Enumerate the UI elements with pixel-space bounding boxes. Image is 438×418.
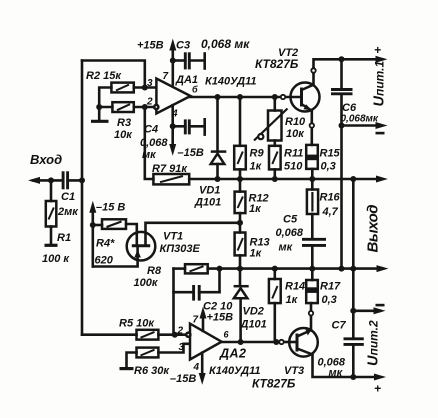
svg-text:–15 В: –15 В bbox=[96, 202, 125, 214]
svg-text:R4*: R4* bbox=[96, 238, 115, 250]
svg-text:4: 4 bbox=[171, 109, 178, 120]
svg-text:С6: С6 bbox=[342, 102, 357, 114]
svg-text:R15: R15 bbox=[320, 148, 341, 160]
svg-text:1к: 1к bbox=[249, 203, 262, 215]
svg-text:0,068: 0,068 bbox=[276, 227, 304, 239]
svg-text:R11: R11 bbox=[284, 148, 303, 160]
svg-text:+: + bbox=[374, 43, 381, 57]
svg-text:КТ827Б: КТ827Б bbox=[255, 57, 299, 71]
svg-text:R7 91к: R7 91к bbox=[152, 163, 188, 175]
svg-text:1к: 1к bbox=[250, 161, 263, 173]
svg-text:+15В: +15В bbox=[207, 312, 234, 324]
svg-text:VT1: VT1 bbox=[163, 231, 183, 243]
svg-text:Д101: Д101 bbox=[240, 319, 267, 331]
svg-text:К140УД11: К140УД11 bbox=[209, 365, 261, 377]
svg-text:0,068 мк: 0,068 мк bbox=[201, 37, 250, 51]
svg-text:0,068мк: 0,068мк bbox=[341, 114, 379, 125]
svg-text:+: + bbox=[374, 382, 381, 396]
svg-text:1к: 1к bbox=[286, 294, 299, 306]
svg-text:К140УД11: К140УД11 bbox=[205, 76, 257, 88]
svg-text:мк: мк bbox=[329, 367, 344, 379]
svg-text:R16: R16 bbox=[320, 192, 341, 204]
svg-text:620: 620 bbox=[95, 255, 114, 267]
svg-text:мк: мк bbox=[279, 242, 294, 254]
svg-text:КТ827Б: КТ827Б bbox=[252, 377, 296, 391]
svg-text:3: 3 bbox=[147, 78, 153, 89]
svg-text:R8: R8 bbox=[147, 265, 162, 277]
svg-text:1к: 1к bbox=[250, 248, 263, 260]
svg-text:R17: R17 bbox=[320, 281, 341, 293]
svg-text:–15В: –15В bbox=[178, 147, 204, 159]
svg-text:мк: мк bbox=[142, 149, 157, 161]
svg-text:б: б bbox=[192, 85, 198, 95]
svg-text:VD2: VD2 bbox=[243, 306, 264, 318]
svg-text:2мк: 2мк bbox=[57, 206, 79, 218]
svg-text:R1: R1 bbox=[57, 232, 71, 244]
svg-text:2: 2 bbox=[146, 97, 153, 108]
svg-text:0,3: 0,3 bbox=[321, 161, 336, 173]
svg-text:3: 3 bbox=[179, 342, 185, 353]
svg-text:2: 2 bbox=[177, 326, 184, 337]
svg-text:510: 510 bbox=[284, 161, 303, 173]
svg-text:Д101: Д101 bbox=[194, 197, 221, 209]
svg-text:–15В: –15В bbox=[170, 373, 196, 385]
svg-text:100к: 100к bbox=[134, 277, 159, 289]
svg-text:VD1: VD1 bbox=[199, 185, 220, 197]
svg-text:С5: С5 bbox=[283, 214, 298, 226]
svg-text:6: 6 bbox=[224, 330, 230, 340]
svg-text:100 к: 100 к bbox=[42, 253, 70, 265]
svg-text:R5 10к: R5 10к bbox=[119, 318, 155, 330]
svg-text:С3: С3 bbox=[176, 40, 190, 52]
svg-text:+15В: +15В bbox=[137, 40, 164, 52]
svg-text:10к: 10к bbox=[286, 128, 305, 140]
svg-text:С7: С7 bbox=[332, 320, 347, 332]
svg-text:7: 7 bbox=[163, 71, 169, 82]
svg-text:Выход: Выход bbox=[365, 205, 382, 253]
svg-text:С4: С4 bbox=[144, 124, 158, 136]
svg-text:ДА2: ДА2 bbox=[219, 347, 247, 361]
svg-text:R3: R3 bbox=[117, 117, 131, 129]
svg-text:R9: R9 bbox=[250, 148, 265, 160]
svg-text:4: 4 bbox=[193, 362, 200, 373]
svg-text:0,3: 0,3 bbox=[322, 294, 337, 306]
svg-text:7: 7 bbox=[193, 315, 199, 326]
svg-text:Uпит.2: Uпит.2 bbox=[366, 320, 382, 366]
svg-text:R2 15к: R2 15к bbox=[86, 70, 122, 82]
svg-text:VT3: VT3 bbox=[284, 365, 304, 377]
svg-text:КП303Е: КП303Е bbox=[160, 243, 201, 255]
svg-text:0,068: 0,068 bbox=[140, 137, 168, 149]
svg-text:Uпит.1: Uпит.1 bbox=[372, 61, 388, 107]
svg-text:10к: 10к bbox=[114, 129, 133, 141]
svg-text:С1: С1 bbox=[61, 191, 75, 203]
svg-text:R10: R10 bbox=[285, 116, 306, 128]
svg-text:4,7: 4,7 bbox=[322, 206, 339, 218]
svg-text:R14: R14 bbox=[285, 281, 305, 293]
svg-text:Вход: Вход bbox=[30, 152, 62, 167]
svg-text:R6 30к: R6 30к bbox=[134, 365, 170, 377]
